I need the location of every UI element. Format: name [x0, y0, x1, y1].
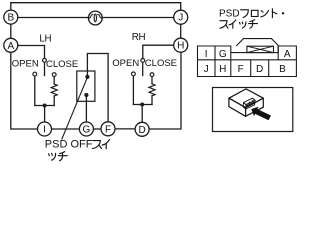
table column divider I/G J/H [214, 46, 216, 77]
svg-text:J: J [178, 13, 183, 24]
left face [229, 98, 246, 116]
wire lamp to J [102, 17, 174, 19]
resistor R1 LH close [51, 84, 57, 96]
wire D to right rail to H [149, 52, 181, 129]
svg-text:J: J [204, 64, 209, 75]
svg-text:OPEN: OPEN [12, 58, 39, 69]
wire LH junction bar [35, 105, 54, 107]
contact RH common [141, 59, 145, 63]
socket detail [243, 98, 255, 109]
wire H to RH switch common [143, 45, 174, 58]
wire left rail A to I [11, 52, 38, 129]
svg-text:PSD: PSD [219, 9, 240, 20]
contact RH OPEN [132, 72, 136, 76]
wire RH CLOSE branch lower [151, 96, 153, 105]
PSD OFF switch bottom contact dot [84, 93, 88, 97]
wire G up to PSD OFF switch [85, 97, 87, 122]
connector lock tab hump [236, 39, 279, 46]
title line1 katakana FU-RO-N-TO dot [241, 9, 285, 18]
junction dot LH [43, 104, 47, 108]
connector table [198, 39, 297, 77]
svg-text:D: D [138, 125, 145, 136]
svg-text:CLOSE: CLOSE [46, 59, 78, 70]
right face [246, 98, 264, 116]
wire RH movable contact stub [142, 62, 144, 75]
terminal B [4, 10, 18, 24]
svg-text:B: B [279, 64, 286, 75]
wire B to A [10, 24, 12, 38]
label PSD OFF switch line1 katakana SU-I [93, 140, 110, 149]
PSD OFF switch top contact dot [85, 75, 89, 79]
wire B to lamp [18, 17, 89, 19]
terminal F [101, 122, 115, 136]
wire J to H [180, 24, 182, 38]
table pin letters [204, 49, 291, 75]
svg-text:CLOSE: CLOSE [145, 58, 177, 69]
wire RH CLOSE branch upper [151, 77, 153, 84]
table column divider F/D [250, 60, 252, 77]
svg-text:G: G [219, 49, 227, 60]
svg-text:H: H [177, 41, 184, 52]
wire RH junction bar [133, 104, 152, 106]
wire LH OPEN branch [34, 76, 36, 105]
terminal H [174, 38, 188, 52]
table column divider G/F H/F [230, 53, 232, 77]
terminal J [174, 10, 188, 24]
wire PSD OFF switch top to F (bridge) [87, 54, 108, 122]
connector view box [213, 88, 293, 132]
table row divider [198, 59, 297, 61]
contact RH CLOSE [150, 73, 154, 77]
wire G to F [94, 128, 102, 130]
svg-text:A: A [284, 49, 291, 60]
arrow pointing to connector [251, 107, 271, 121]
contact LH common [43, 58, 47, 62]
svg-text:LH: LH [39, 33, 51, 44]
wire LH movable contact stub [44, 62, 46, 75]
wire A to LH switch common [18, 46, 45, 59]
wire I to G [52, 128, 80, 130]
svg-text:B: B [7, 13, 14, 24]
table column divider D/B [268, 60, 270, 77]
table column divider A left [277, 46, 279, 60]
svg-text:RH: RH [132, 32, 146, 43]
PSD OFF switch lever / leader line [62, 78, 87, 140]
wire LH junction to I [44, 106, 46, 122]
svg-text:OPEN: OPEN [112, 58, 139, 69]
wire LH CLOSE branch upper [53, 77, 55, 84]
top face [229, 89, 263, 108]
svg-text:A: A [7, 41, 14, 52]
terminal G [79, 122, 93, 136]
terminal I [38, 122, 52, 136]
table outer border with recessed middle top [198, 46, 297, 77]
PSD OFF switch box [77, 71, 95, 101]
wire F to D [115, 128, 135, 130]
label PSD OFF switch line2 katakana small-TSU CHI [49, 152, 68, 161]
svg-text:F: F [238, 64, 244, 75]
resistor R2 RH close [149, 84, 155, 96]
wire RH OPEN branch [132, 76, 134, 105]
wire top rail B to J [11, 3, 181, 11]
connector key hatched box [247, 46, 274, 52]
junction dot RH [140, 103, 144, 107]
svg-text:H: H [219, 64, 226, 75]
svg-text:I: I [205, 49, 208, 60]
lamp L1 illumination [88, 11, 102, 25]
svg-text:I: I [43, 125, 46, 136]
contact LH OPEN [33, 72, 37, 76]
svg-text:F: F [105, 124, 111, 135]
title line2 katakana SU-I-small-TSU CHI [220, 20, 258, 29]
svg-text:D: D [256, 64, 263, 75]
wire RH junction to D [141, 105, 143, 123]
svg-text:PSD OFF: PSD OFF [45, 139, 93, 151]
terminal A [4, 38, 18, 52]
terminal D [135, 122, 149, 136]
connector 3D icon [229, 89, 263, 116]
contact LH CLOSE [52, 73, 56, 77]
wire LH CLOSE branch lower [53, 96, 55, 106]
svg-text:G: G [83, 125, 91, 136]
